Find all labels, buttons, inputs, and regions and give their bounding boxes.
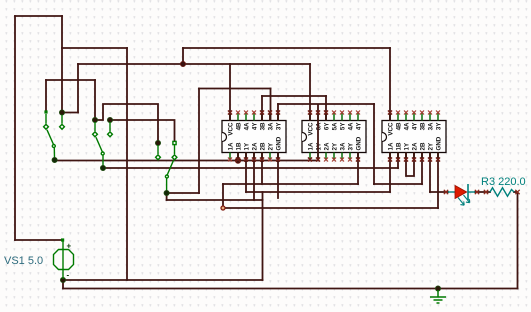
svg-text:5Y: 5Y bbox=[340, 122, 347, 130]
wire to SW1 left bbox=[45, 80, 47, 111]
svg-text:4Y: 4Y bbox=[252, 122, 259, 130]
wire y200 bbox=[167, 199, 263, 201]
wire to VS1 plus bbox=[15, 239, 61, 241]
svg-text:GND: GND bbox=[276, 136, 283, 150]
wire VCC IC3 bbox=[389, 48, 391, 121]
svg-text:-: - bbox=[67, 271, 70, 280]
wire IC2 6Y down bbox=[325, 96, 327, 121]
svg-text:4Y: 4Y bbox=[356, 122, 363, 130]
svg-text:4A: 4A bbox=[244, 122, 251, 130]
wire y64 VCC bbox=[78, 63, 310, 65]
wire IC3 2Y down bbox=[429, 153, 431, 193]
wire IC1 3A down bbox=[270, 89, 272, 121]
wire x199 up bbox=[198, 89, 200, 194]
wire to LED bbox=[430, 191, 448, 193]
svg-text:3A: 3A bbox=[428, 122, 435, 130]
svg-text:R3 220.0: R3 220.0 bbox=[481, 176, 526, 188]
wire bus1 SW1 common bbox=[55, 160, 318, 162]
svg-text:1Y: 1Y bbox=[404, 142, 411, 150]
svg-text:4A: 4A bbox=[404, 122, 411, 130]
dark X marks on connected pins bbox=[228, 111, 440, 162]
wire IC1 3Y up bbox=[277, 104, 279, 121]
svg-text:1A: 1A bbox=[228, 142, 235, 150]
node dot SW3 left bbox=[155, 140, 160, 145]
switch SW2 bbox=[93, 122, 113, 171]
wire IC3 2B up bbox=[421, 153, 423, 185]
wire y80 bbox=[46, 79, 95, 81]
svg-text:3Y: 3Y bbox=[348, 142, 355, 150]
wire IC2 GND down bbox=[357, 153, 359, 185]
pin X marks IC2 bbox=[308, 111, 360, 162]
wire VS1 minus drop bbox=[62, 280, 64, 289]
svg-text:VCC: VCC bbox=[308, 122, 315, 136]
LED D1 bbox=[448, 184, 475, 205]
wire y280 bbox=[63, 279, 263, 281]
wire y192 bbox=[246, 191, 390, 193]
switch SW1 bbox=[44, 110, 65, 162]
wire to SW2 left bbox=[94, 80, 96, 119]
node dot bus1 2B bbox=[260, 159, 264, 163]
wire SW2 left jog bbox=[95, 104, 158, 142]
node dot SW2 right bbox=[107, 117, 112, 122]
wire y96 bbox=[262, 95, 326, 97]
terminal X marks LED R3 bbox=[444, 190, 520, 194]
wire x127 bbox=[126, 48, 128, 280]
wire IC3 1A up bbox=[389, 153, 391, 193]
svg-text:5A: 5A bbox=[332, 122, 339, 130]
wire x62 bbox=[61, 16, 63, 113]
svg-text:3Y: 3Y bbox=[436, 122, 443, 130]
svg-text:3B: 3B bbox=[420, 122, 427, 130]
wire SW3 common down bbox=[166, 193, 168, 200]
wire bus2 SW2 common bbox=[103, 167, 398, 169]
svg-text:+: + bbox=[67, 242, 72, 251]
svg-text:2Y: 2Y bbox=[268, 142, 275, 150]
wire overlays on connected pin stubs bbox=[230, 112, 438, 161]
wire x183 bbox=[182, 48, 184, 64]
node dot x183 y64 bbox=[180, 61, 185, 66]
svg-text:4B: 4B bbox=[236, 122, 243, 130]
wire IC1 3B up bbox=[261, 96, 263, 121]
svg-text:4B: 4B bbox=[396, 122, 403, 130]
svg-text:2A: 2A bbox=[252, 142, 259, 150]
svg-text:2A: 2A bbox=[412, 142, 419, 150]
wire x262 drop bbox=[262, 200, 264, 280]
wire LED to R3 bbox=[475, 191, 490, 193]
resistor R3 bbox=[490, 188, 514, 196]
wire y184 right bbox=[374, 183, 422, 185]
wire bottom rail bbox=[63, 288, 518, 290]
svg-text:1B: 1B bbox=[236, 142, 243, 150]
wire y208 bbox=[223, 207, 438, 209]
node dot SW2 left bbox=[92, 117, 97, 122]
svg-text:3A: 3A bbox=[340, 142, 347, 150]
wire y48 right bbox=[183, 47, 390, 49]
svg-text:2Y: 2Y bbox=[332, 142, 339, 150]
node dot bus1 2A bbox=[252, 159, 256, 163]
svg-text:2A: 2A bbox=[324, 142, 331, 150]
svg-text:3Y: 3Y bbox=[276, 122, 283, 130]
node dot bus1 1B bbox=[235, 158, 241, 164]
svg-text:1A: 1A bbox=[308, 142, 315, 150]
wire VCC IC2 bbox=[309, 64, 311, 121]
svg-text:VCC: VCC bbox=[228, 122, 235, 136]
svg-text:VCC: VCC bbox=[388, 122, 395, 136]
wire y88 bbox=[199, 88, 271, 90]
svg-text:1A: 1A bbox=[388, 142, 395, 150]
svg-text:GND: GND bbox=[436, 136, 443, 150]
wire jog x262 bbox=[262, 192, 264, 200]
svg-text:3A: 3A bbox=[268, 122, 275, 130]
ground bbox=[430, 290, 446, 303]
wire y184 gnd bbox=[223, 183, 358, 185]
wire IC1 2A down bbox=[253, 153, 255, 201]
wire y104 bbox=[278, 103, 374, 105]
wire x374 bbox=[373, 104, 375, 184]
wire x223 bbox=[222, 184, 224, 208]
switch SW3 bbox=[156, 141, 177, 195]
node ring x223 y208 bbox=[221, 206, 225, 210]
wire IC3 GND down bbox=[437, 153, 439, 209]
wire SW3 common right bbox=[167, 192, 199, 194]
wire x517 bbox=[517, 192, 519, 289]
node dot SW1 right bbox=[59, 110, 64, 115]
pin X marks IC3 bbox=[388, 111, 440, 162]
svg-text:2Y: 2Y bbox=[428, 142, 435, 150]
svg-text:4Y: 4Y bbox=[412, 122, 419, 130]
IC U2 7404 bbox=[302, 114, 366, 160]
wire top y16 bbox=[15, 15, 62, 17]
svg-text:6A: 6A bbox=[316, 122, 323, 130]
wire y48 left bbox=[62, 47, 127, 49]
wire R3 to corner bbox=[514, 191, 518, 193]
wire IC1 1Y down bbox=[245, 153, 247, 193]
voltage source VS1 bbox=[54, 238, 74, 279]
wire IC1 2B down bbox=[261, 153, 263, 185]
wire SW1 right to x78 bbox=[62, 112, 78, 114]
node dot VS1 minus bbox=[60, 277, 65, 282]
wire SW2 right to SW3 right bbox=[110, 120, 175, 142]
svg-text:3B: 3B bbox=[260, 122, 267, 130]
IC U3 7400 bbox=[382, 114, 446, 160]
svg-text:1Y: 1Y bbox=[244, 142, 251, 150]
pin X marks IC1 bbox=[228, 111, 280, 162]
svg-text:GND: GND bbox=[356, 136, 363, 150]
svg-text:2B: 2B bbox=[260, 142, 267, 150]
svg-text:1Y: 1Y bbox=[316, 142, 323, 150]
svg-text:1B: 1B bbox=[396, 142, 403, 150]
svg-text:4A: 4A bbox=[348, 122, 355, 130]
svg-text:VS1 5.0: VS1 5.0 bbox=[4, 255, 43, 267]
wire left x15 bbox=[14, 16, 16, 240]
svg-text:6Y: 6Y bbox=[324, 122, 331, 130]
wire IC1 GND down bbox=[277, 153, 279, 199]
svg-text:2B: 2B bbox=[420, 142, 427, 150]
wire VCC IC1 bbox=[229, 64, 231, 121]
node dot bus1 1Y bbox=[244, 159, 248, 163]
wire x78 bbox=[77, 64, 79, 113]
wire through IC2 x318 bbox=[317, 104, 319, 161]
node dot bus1 GND bbox=[276, 159, 280, 163]
node dot ground bbox=[435, 286, 440, 291]
wire IC3 1B up bbox=[397, 153, 399, 169]
wire IC1 1B stub bbox=[237, 153, 239, 162]
IC U1 7400 bbox=[222, 114, 286, 160]
wire U loop 1Y 2A IC3 bbox=[406, 153, 414, 177]
